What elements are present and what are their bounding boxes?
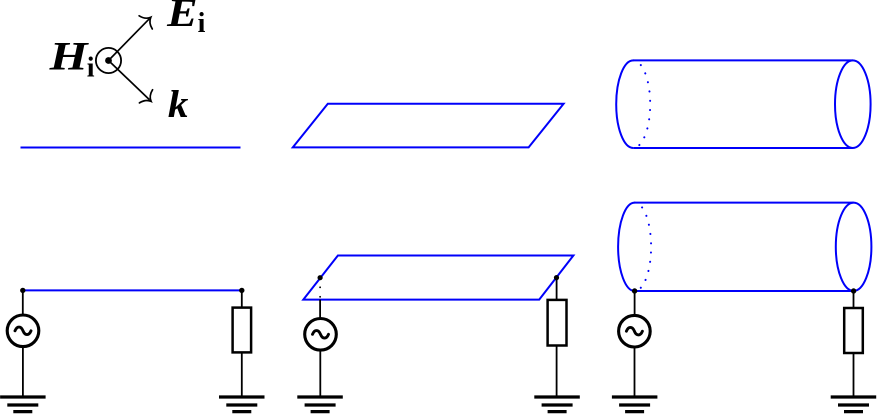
svg-text:k: k	[168, 83, 189, 126]
svg-text:i: i	[198, 8, 206, 39]
svg-text:i: i	[87, 53, 95, 84]
svg-text:E: E	[166, 0, 198, 35]
svg-text:H: H	[48, 34, 90, 79]
